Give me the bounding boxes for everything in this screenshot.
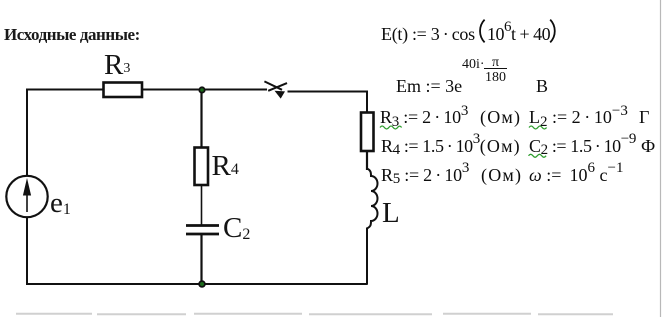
- page margin line: [660, 0, 662, 317]
- formula line 5: R5 := 2*10^3: [381, 163, 469, 190]
- resistor R5 (box): [361, 113, 374, 152]
- formula line 4 unit (Om): [480, 134, 521, 159]
- formula line 2 fraction bar: [484, 68, 507, 69]
- node junction bottom green dot: [198, 280, 206, 288]
- label L: [382, 197, 400, 230]
- switch arrowhead: [275, 91, 286, 99]
- formula line 1: E(t) := 3*cos: [381, 22, 475, 47]
- wire bottom horizontal: [26, 283, 368, 285]
- formula line 4: R4 := 1.5*10^3: [381, 134, 480, 161]
- formula line 3: L2 := 2*10^-3: [529, 105, 628, 132]
- bottom cut-off text remnants: [16, 313, 613, 316]
- formula line 2 fraction numerator pi: [484, 55, 507, 71]
- wire top-right horizontal (after switch): [288, 91, 369, 93]
- formula line 3 unit (Om): [480, 105, 521, 130]
- formula line 3 unit G: [639, 105, 649, 130]
- formula line 4: C2 := 1.5*10^-9: [529, 134, 636, 161]
- formula line 3: R3 := 2*10^3: [380, 105, 468, 132]
- formula line 2 exponent 40i: [462, 57, 485, 73]
- formula line 1 big paren left: [480, 20, 485, 43]
- resistor R3 (box): [104, 83, 143, 98]
- wire right vertical between R5 box and coil: [366, 150, 368, 170]
- formula line 5 unit (Om): [481, 163, 522, 188]
- wire right vertical upper: [366, 91, 368, 114]
- inductor L coil: [367, 169, 378, 229]
- source e1 circle: [6, 176, 47, 217]
- switch blade: [268, 83, 287, 91]
- formula line 2 fraction denominator 180: [484, 70, 507, 86]
- formula line 5: omega := 10^6 c^-1: [529, 163, 623, 190]
- wire middle branch upper: [200, 90, 202, 148]
- formula line 4 unit F: [641, 134, 655, 159]
- squiggle under R3 value line 3: [380, 126, 402, 129]
- formula line 2: Em := 3e^(40i pi/180) B: [396, 74, 462, 99]
- resistor R4 (box): [195, 148, 209, 186]
- squiggle under C2 value line 4: [529, 154, 547, 157]
- label e1: [50, 187, 71, 224]
- formula line 2 unit B: [536, 74, 548, 99]
- label R4: [212, 150, 239, 187]
- label R3: [104, 49, 130, 87]
- wire middle branch lower: [200, 234, 202, 284]
- wire middle branch between R4 and C2: [201, 184, 203, 226]
- source e1 arrow: [23, 178, 31, 212]
- wire left vertical: [26, 90, 28, 285]
- wire right vertical lower: [366, 228, 368, 285]
- switch cross stroke: [264, 81, 282, 89]
- label C2: [223, 212, 250, 249]
- formula line 1 big paren right: [550, 20, 555, 43]
- title "Исходные данные:": [4, 25, 140, 45]
- node junction top green dot: [198, 86, 205, 93]
- capacitor C2 plates: [186, 226, 219, 235]
- formula line 1 argument 10^6 t + 40: [487, 22, 550, 49]
- wire top-left horizontal: [26, 89, 267, 91]
- squiggle under L2 value line 3: [529, 126, 547, 129]
